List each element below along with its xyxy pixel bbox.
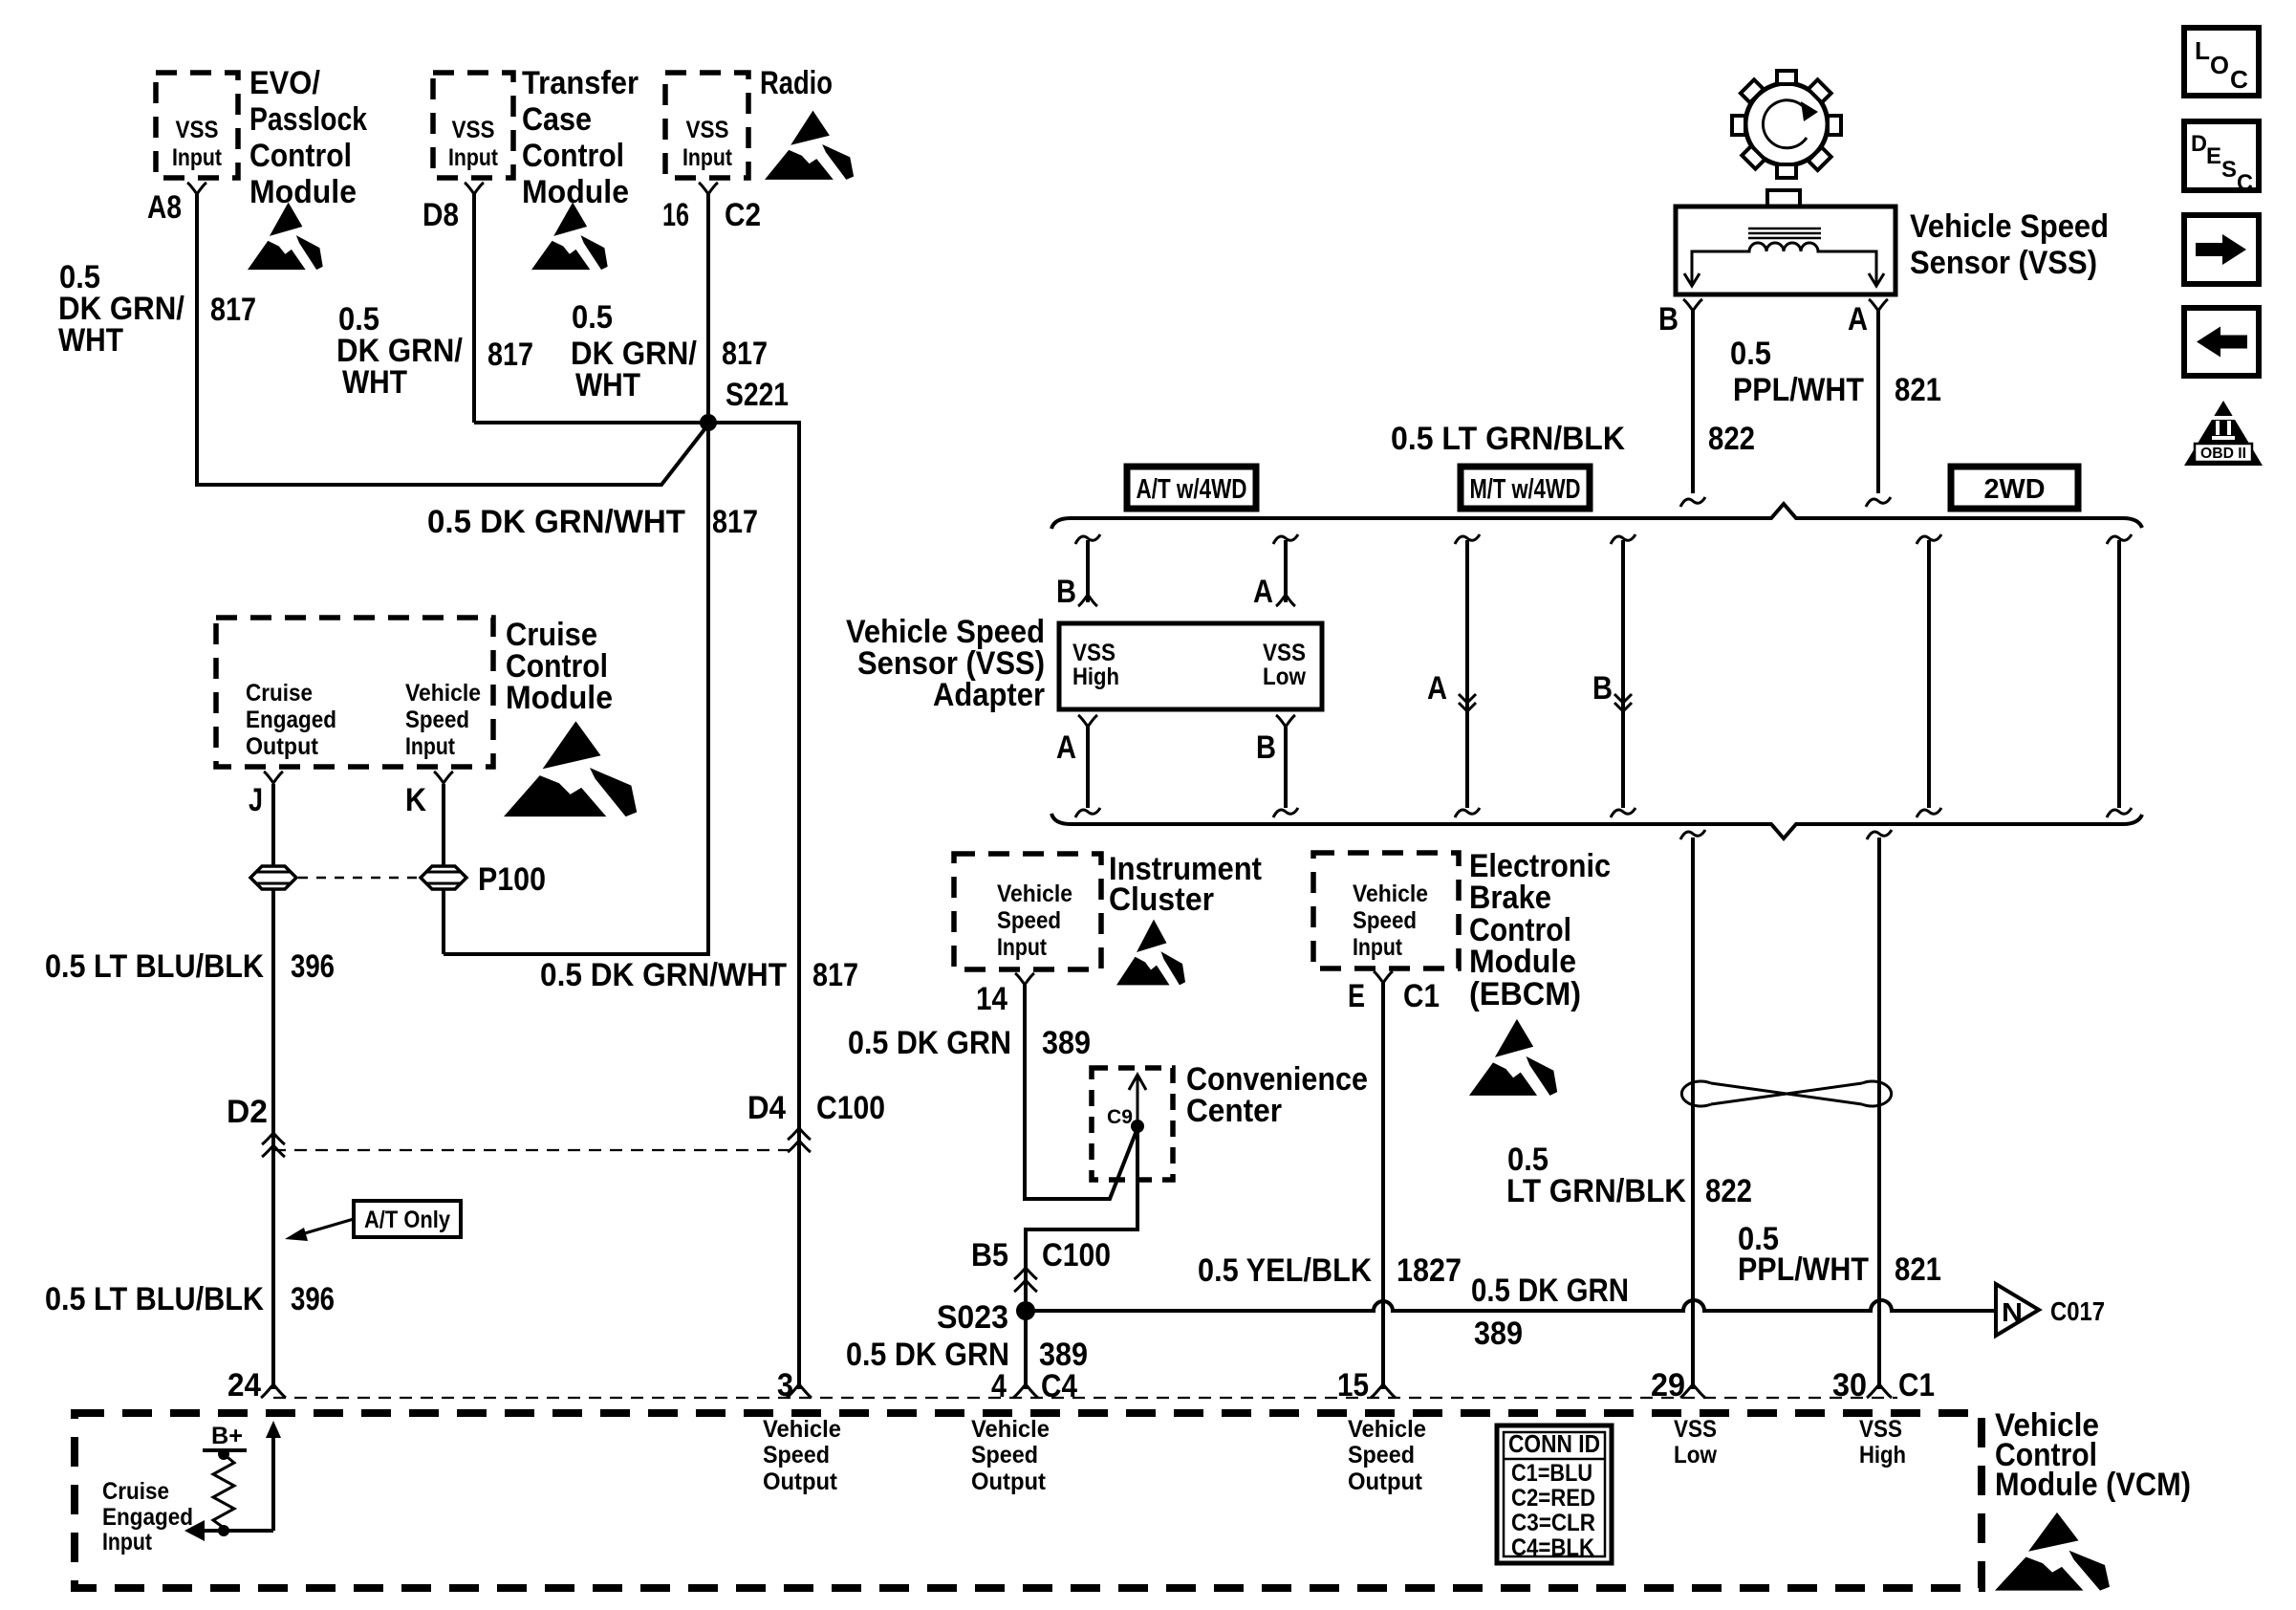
svg-text:Vehicle: Vehicle <box>997 881 1072 907</box>
svg-text:0.5 DK GRN: 0.5 DK GRN <box>848 1025 1011 1061</box>
svg-text:Speed: Speed <box>1348 1442 1415 1469</box>
svg-text:A/T w/4WD: A/T w/4WD <box>1137 474 1247 505</box>
svg-text:Cruise: Cruise <box>102 1478 169 1505</box>
svg-text:D8: D8 <box>422 197 459 233</box>
svg-text:WHT: WHT <box>575 367 640 403</box>
svg-text:LT GRN/BLK: LT GRN/BLK <box>1506 1173 1686 1209</box>
svg-text:3: 3 <box>777 1367 793 1403</box>
svg-text:C1=BLU: C1=BLU <box>1511 1460 1592 1487</box>
svg-text:Module: Module <box>522 174 629 210</box>
svg-text:Module: Module <box>506 680 613 716</box>
svg-text:14: 14 <box>976 981 1007 1017</box>
svg-text:817: 817 <box>712 504 758 540</box>
svg-text:Brake: Brake <box>1469 880 1551 916</box>
svg-text:2WD: 2WD <box>1984 474 2046 505</box>
svg-text:Input: Input <box>405 733 456 760</box>
svg-text:B+: B+ <box>211 1423 243 1449</box>
svg-text:0.5 YEL/BLK: 0.5 YEL/BLK <box>1198 1252 1372 1289</box>
svg-text:K: K <box>405 782 426 818</box>
svg-text:Control: Control <box>249 138 352 174</box>
svg-text:D: D <box>2191 131 2207 157</box>
svg-text:4: 4 <box>991 1368 1007 1404</box>
svg-text:A: A <box>1427 670 1447 707</box>
svg-text:D2: D2 <box>227 1094 268 1130</box>
svg-text:A: A <box>1848 301 1868 337</box>
svg-text:Output: Output <box>1348 1469 1423 1495</box>
svg-text:VSS: VSS <box>1072 640 1116 666</box>
svg-text:396: 396 <box>291 948 335 985</box>
svg-text:15: 15 <box>1337 1367 1369 1403</box>
svg-text:Control: Control <box>522 138 624 174</box>
svg-text:Input: Input <box>102 1529 153 1556</box>
svg-text:Low: Low <box>1674 1442 1717 1469</box>
svg-text:821: 821 <box>1895 372 1941 408</box>
svg-text:0.5 DK GRN: 0.5 DK GRN <box>846 1337 1009 1373</box>
svg-text:E: E <box>2206 143 2221 169</box>
svg-text:Low: Low <box>1263 664 1306 690</box>
svg-text:C1: C1 <box>1403 978 1440 1014</box>
svg-text:Input: Input <box>997 934 1048 961</box>
svg-text:Input: Input <box>448 144 499 171</box>
svg-text:WHT: WHT <box>58 322 123 359</box>
svg-text:M/T w/4WD: M/T w/4WD <box>1470 474 1581 505</box>
svg-text:C9: C9 <box>1107 1106 1133 1128</box>
svg-text:Module (VCM): Module (VCM) <box>1995 1467 2191 1503</box>
svg-text:High: High <box>1859 1442 1906 1469</box>
svg-text:0.5 DK GRN/WHT: 0.5 DK GRN/WHT <box>427 504 685 540</box>
svg-text:0.5: 0.5 <box>1730 336 1771 372</box>
svg-text:Passlock: Passlock <box>249 101 367 138</box>
svg-text:Vehicle: Vehicle <box>763 1416 841 1443</box>
svg-text:Module: Module <box>1469 944 1576 980</box>
svg-text:C100: C100 <box>816 1090 885 1126</box>
svg-text:Vehicle: Vehicle <box>971 1416 1050 1443</box>
svg-text:OBD II: OBD II <box>2200 446 2246 462</box>
svg-text:389: 389 <box>1474 1316 1523 1352</box>
svg-text:Speed: Speed <box>1353 907 1417 934</box>
svg-text:Adapter: Adapter <box>933 677 1045 713</box>
svg-text:Speed: Speed <box>763 1442 830 1469</box>
svg-text:Cruise: Cruise <box>246 680 313 707</box>
svg-text:A8: A8 <box>147 189 182 226</box>
svg-text:Center: Center <box>1186 1093 1282 1129</box>
svg-text:VSS: VSS <box>686 117 729 143</box>
svg-text:PPL/WHT: PPL/WHT <box>1733 372 1864 408</box>
svg-text:0.5 DK GRN: 0.5 DK GRN <box>1471 1273 1629 1309</box>
svg-text:Case: Case <box>522 101 592 138</box>
svg-text:B: B <box>1256 729 1276 766</box>
svg-text:High: High <box>1072 664 1119 690</box>
svg-text:Input: Input <box>172 144 223 171</box>
svg-text:C1: C1 <box>1898 1367 1935 1403</box>
svg-text:389: 389 <box>1042 1025 1091 1061</box>
svg-text:822: 822 <box>1705 1173 1752 1209</box>
svg-text:29: 29 <box>1651 1367 1685 1403</box>
svg-text:Engaged: Engaged <box>102 1504 193 1531</box>
svg-text:S023: S023 <box>937 1299 1008 1336</box>
svg-text:(EBCM): (EBCM) <box>1469 976 1581 1012</box>
svg-text:817: 817 <box>812 957 858 993</box>
svg-text:B5: B5 <box>971 1237 1008 1273</box>
svg-text:EVO/: EVO/ <box>249 65 321 101</box>
svg-text:A: A <box>1056 729 1076 766</box>
svg-text:0.5 LT BLU/BLK: 0.5 LT BLU/BLK <box>45 1281 264 1317</box>
svg-text:Transfer: Transfer <box>522 65 639 101</box>
svg-text:0.5 LT BLU/BLK: 0.5 LT BLU/BLK <box>45 948 264 985</box>
svg-text:C: C <box>2237 170 2253 196</box>
svg-text:N: N <box>2002 1297 2023 1327</box>
svg-text:VSS: VSS <box>1859 1416 1902 1443</box>
svg-text:E: E <box>1348 978 1365 1014</box>
svg-text:C4: C4 <box>1041 1368 1077 1404</box>
svg-text:B: B <box>1658 301 1679 337</box>
svg-text:VSS: VSS <box>176 117 219 143</box>
svg-text:J: J <box>249 782 263 818</box>
svg-text:24: 24 <box>227 1367 261 1403</box>
svg-text:C3=CLR: C3=CLR <box>1511 1510 1595 1536</box>
svg-text:Vehicle: Vehicle <box>1353 881 1428 907</box>
svg-text:S: S <box>2221 157 2237 183</box>
svg-text:A/T Only: A/T Only <box>364 1207 450 1233</box>
svg-text:Sensor (VSS): Sensor (VSS) <box>1910 245 2097 281</box>
svg-text:0.5 LT GRN/BLK: 0.5 LT GRN/BLK <box>1391 421 1625 457</box>
svg-text:Vehicle: Vehicle <box>405 680 481 707</box>
svg-text:Input: Input <box>682 144 733 171</box>
svg-text:1827: 1827 <box>1397 1252 1462 1289</box>
svg-text:WHT: WHT <box>342 364 407 401</box>
svg-text:P100: P100 <box>478 861 546 898</box>
svg-text:30: 30 <box>1832 1367 1867 1403</box>
svg-text:L: L <box>2195 36 2210 65</box>
svg-text:VSS: VSS <box>452 117 495 143</box>
svg-text:Input: Input <box>1353 934 1403 961</box>
svg-text:Vehicle Speed: Vehicle Speed <box>1910 208 2109 245</box>
svg-text:A: A <box>1253 574 1273 610</box>
svg-text:C017: C017 <box>2050 1296 2105 1326</box>
svg-text:Module: Module <box>249 174 357 210</box>
svg-text:Output: Output <box>246 733 319 760</box>
svg-text:C: C <box>2230 65 2248 94</box>
svg-text:396: 396 <box>291 1281 335 1317</box>
svg-text:CONN ID: CONN ID <box>1508 1429 1600 1458</box>
svg-text:817: 817 <box>210 292 256 328</box>
svg-text:O: O <box>2210 51 2229 79</box>
svg-text:821: 821 <box>1895 1251 1941 1288</box>
svg-text:C4=BLK: C4=BLK <box>1511 1534 1594 1561</box>
svg-text:Radio: Radio <box>760 65 833 101</box>
svg-text:C2=RED: C2=RED <box>1511 1485 1595 1512</box>
svg-text:Cluster: Cluster <box>1109 881 1214 918</box>
svg-text:S221: S221 <box>726 377 789 413</box>
svg-text:Output: Output <box>971 1469 1047 1495</box>
svg-text:822: 822 <box>1708 421 1755 457</box>
svg-text:0.5: 0.5 <box>572 299 613 336</box>
svg-text:C100: C100 <box>1042 1237 1111 1273</box>
svg-text:B: B <box>1056 574 1076 610</box>
svg-text:Vehicle: Vehicle <box>1348 1416 1426 1443</box>
svg-text:D4: D4 <box>747 1090 786 1126</box>
svg-text:817: 817 <box>722 336 768 372</box>
svg-text:C2: C2 <box>725 197 761 233</box>
svg-text:PPL/WHT: PPL/WHT <box>1738 1251 1869 1288</box>
svg-text:16: 16 <box>662 197 689 233</box>
svg-text:Engaged: Engaged <box>246 707 336 733</box>
svg-text:Output: Output <box>763 1469 838 1495</box>
svg-text:817: 817 <box>487 337 533 373</box>
svg-text:Speed: Speed <box>405 707 469 733</box>
svg-text:VSS: VSS <box>1263 640 1306 666</box>
svg-text:B: B <box>1592 670 1613 707</box>
svg-text:Speed: Speed <box>971 1442 1038 1469</box>
svg-text:Speed: Speed <box>997 907 1061 934</box>
svg-text:VSS: VSS <box>1674 1416 1717 1443</box>
svg-text:0.5 DK GRN/WHT: 0.5 DK GRN/WHT <box>540 957 787 993</box>
